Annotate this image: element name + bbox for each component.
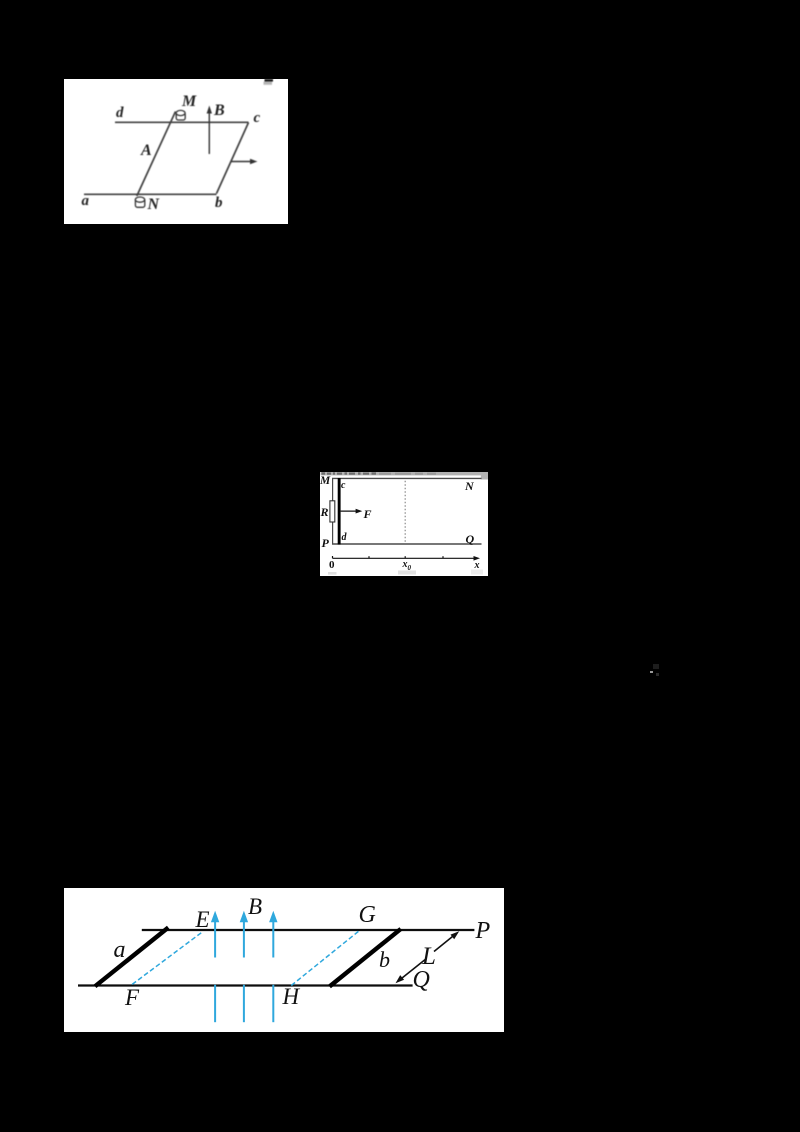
- wire left vertical: [332, 478, 334, 545]
- wire rail MN (top): [332, 477, 482, 479]
- wire rail bottom (to Q): [78, 984, 413, 986]
- label M: [320, 475, 330, 487]
- label A: [141, 142, 152, 160]
- label B: [248, 894, 262, 920]
- label B: [214, 102, 225, 120]
- arrow B (field, up): [207, 106, 212, 155]
- label d: [116, 105, 124, 122]
- arrow velocity (right): [231, 159, 258, 164]
- wire rail top (to P): [142, 929, 475, 931]
- rod b: [330, 929, 401, 987]
- smudge top-right: [265, 79, 274, 82]
- label F: [364, 507, 372, 522]
- wire rail PQ (bottom): [332, 543, 482, 545]
- gray block right end of band: [481, 472, 488, 480]
- arrow L (down-left to Q rail): [396, 959, 426, 983]
- label N: [465, 479, 474, 494]
- label b: [215, 195, 223, 212]
- label N: [148, 196, 160, 214]
- label d: [342, 532, 347, 543]
- field arrows B (upper): [211, 911, 278, 958]
- label M: [182, 93, 196, 111]
- rod cd (thick): [338, 478, 341, 545]
- label P: [476, 918, 491, 945]
- label R: [321, 505, 329, 520]
- wire rail d (top): [115, 121, 249, 123]
- wire rod A (left slant through M,N): [137, 112, 176, 197]
- label Q: [466, 532, 475, 547]
- label P: [322, 536, 329, 551]
- label x0: [403, 559, 412, 572]
- label x: [475, 560, 480, 571]
- dotted line at x0: [404, 481, 406, 543]
- rod a: [95, 928, 168, 987]
- wire rail a (bottom): [84, 193, 217, 195]
- arrow L (up-right to P rail): [434, 931, 459, 951]
- label H: [283, 984, 300, 1010]
- faint glyph mid page: [648, 664, 662, 678]
- black strip above band: [320, 470, 488, 472]
- label 0: [329, 559, 335, 571]
- figure 3: rods a,b on rails PQ with field B through EFGH: [64, 888, 504, 1032]
- label b: [379, 947, 390, 973]
- torn gray band (cut text): [321, 472, 489, 475]
- node M block (cylinder): [176, 110, 185, 120]
- figure 1: parallelogram circuit abcd with blocks M and N: [64, 79, 288, 224]
- label a: [82, 193, 90, 210]
- label a: [114, 937, 126, 964]
- x axis: [333, 556, 481, 561]
- arrow F: [341, 509, 363, 514]
- faint smudges under axis: [398, 571, 416, 575]
- field lines lower: [215, 985, 273, 1022]
- figure 2: rod cd on rails MN PQ with resistor R and force F, x axis: [320, 470, 488, 576]
- label E: [196, 907, 210, 933]
- label Q: [413, 967, 430, 994]
- label L: [422, 943, 436, 971]
- label c: [254, 110, 261, 127]
- dashed line F-E: [132, 933, 201, 985]
- label F: [125, 985, 139, 1011]
- label G: [359, 902, 376, 929]
- dashed line H-G: [291, 931, 359, 986]
- label c: [341, 480, 345, 491]
- wire right slant bc: [217, 123, 249, 194]
- node N block (cylinder): [135, 197, 145, 207]
- resistor R: [330, 501, 335, 522]
